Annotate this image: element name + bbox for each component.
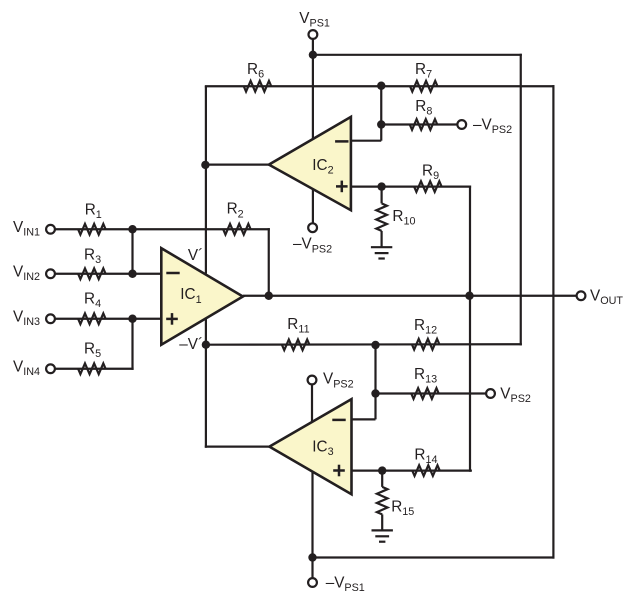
svg-text:–V´: –V´ <box>179 336 203 353</box>
wire IC3 noninverting input / R14 row <box>352 470 472 472</box>
svg-text:R12: R12 <box>414 317 437 337</box>
op-amp IC3 <box>269 399 351 494</box>
IC2 noninverting marker <box>336 181 348 193</box>
op-amp IC1 <box>161 248 243 345</box>
junction R1 node <box>128 225 136 233</box>
wire IC3 inverting input <box>352 418 376 420</box>
wire R4 node down to R5 <box>131 319 133 370</box>
resistor R15 <box>377 487 388 515</box>
resistor R12 <box>412 339 440 350</box>
svg-text:R13: R13 <box>414 366 437 386</box>
wire VIN1/R1/R2 row <box>55 228 270 230</box>
wire R15 top lead <box>381 471 383 487</box>
wire VPS1 rail right <box>313 54 522 56</box>
wire IC1 output to VOUT <box>243 295 577 297</box>
junction VPS1 node <box>309 51 317 59</box>
wire R9 down through VOUT node to R14 <box>469 186 471 472</box>
terminal VIN2 <box>46 269 55 278</box>
svg-text:R4: R4 <box>84 291 101 311</box>
junction R11/R12 node <box>371 341 379 349</box>
junction R3 node <box>128 270 136 278</box>
resistor R9 <box>414 181 442 192</box>
junction R9/R10 node <box>377 182 385 190</box>
resistor R7 <box>410 81 438 92</box>
svg-text:VIN3: VIN3 <box>13 309 40 329</box>
resistor R11 <box>282 340 310 351</box>
wire far-right vertical R7 to -VPS1 rail <box>552 85 554 558</box>
svg-text:–VPS2: –VPS2 <box>293 236 332 256</box>
resistor R5 <box>78 363 106 374</box>
wire IC1 -V' pin down to IC3 output level <box>205 318 207 448</box>
svg-text:R3: R3 <box>84 247 101 267</box>
svg-text:R14: R14 <box>414 446 437 466</box>
junction IC2 output / V' node <box>201 161 209 169</box>
wire R12/R13 node vertical to IC3 inverting input <box>374 345 376 419</box>
junction IC1 output / R2 <box>265 292 273 300</box>
resistor R1 <box>78 224 106 235</box>
wire R13 row to VPS2 terminal <box>376 392 487 394</box>
junction -V' node <box>202 341 210 349</box>
wire R2 down to IC1 output <box>268 228 270 296</box>
terminal -VPS2 (right of R8) <box>457 120 466 129</box>
wire R6 row <box>205 85 381 87</box>
wire VIN3/R4 row to IC1 noninverting input <box>55 318 161 320</box>
wire IC3 V- pin down to -VPS1 rail and terminal stub <box>311 472 313 578</box>
wire R1 node down to R3 node <box>131 229 133 274</box>
IC3 inverting marker <box>332 419 345 422</box>
wire IC2 V- pin to -VPS2 terminal <box>312 190 314 224</box>
resistor R4 <box>78 313 106 324</box>
terminal -VPS1 <box>308 578 317 587</box>
IC2 inverting marker <box>335 140 348 143</box>
op-amp IC2 <box>269 117 351 210</box>
wire V' vertical R6-left down to IC1 V' pin <box>205 86 207 273</box>
wire right-outer vertical VPS1 to R12 <box>520 54 522 346</box>
IC1 noninverting marker <box>166 313 178 325</box>
resistor R14 <box>412 465 440 476</box>
resistor R6 <box>244 81 272 92</box>
junction R4/R5 node <box>128 315 136 323</box>
IC3 noninverting marker <box>333 465 345 477</box>
terminal -VPS2 (below IC2) <box>308 223 317 232</box>
svg-text:V´: V´ <box>188 247 203 264</box>
svg-text:VOUT: VOUT <box>590 287 623 307</box>
wire IC2 noninverting input / R9 row <box>351 186 471 188</box>
ground under R15 <box>372 530 393 541</box>
terminal VIN1 <box>46 225 55 234</box>
svg-text:VPS2: VPS2 <box>500 386 531 406</box>
svg-text:VIN1: VIN1 <box>13 219 40 239</box>
resistor R2 <box>223 224 251 235</box>
svg-text:R11: R11 <box>287 316 309 336</box>
wire VIN4/R5 row <box>55 368 134 370</box>
svg-text:R10: R10 <box>392 208 415 228</box>
svg-text:R7: R7 <box>415 61 432 81</box>
svg-text:–VPS2: –VPS2 <box>473 117 512 137</box>
resistor R13 <box>411 388 439 399</box>
wire to IC3 output apex <box>205 446 270 448</box>
svg-text:VPS1: VPS1 <box>299 10 330 30</box>
wire R10 bottom lead to ground <box>381 231 383 247</box>
IC1 inverting marker <box>166 272 179 275</box>
junction VOUT node <box>465 292 473 300</box>
wire IC2 inverting input <box>351 140 381 142</box>
wire VIN2/R3 row to IC1 inverting input <box>55 273 161 275</box>
junction R6/R7 node <box>377 82 385 90</box>
svg-text:R2: R2 <box>227 201 244 221</box>
terminal VIN3 <box>46 314 55 323</box>
svg-text:R8: R8 <box>415 98 432 118</box>
svg-text:–VPS1: –VPS1 <box>326 574 365 594</box>
svg-text:VIN4: VIN4 <box>13 359 40 379</box>
terminal VPS2 (right of R13) <box>486 389 495 398</box>
terminal VIN4 <box>46 364 55 373</box>
junction R13 node <box>371 389 379 397</box>
svg-text:R9: R9 <box>422 162 439 182</box>
wire -VPS1 bottom rail <box>313 556 555 558</box>
svg-text:R15: R15 <box>391 498 414 518</box>
wire VPS1 stub down through R6 crossing to IC2 V+ pin <box>312 39 314 139</box>
svg-text:R5: R5 <box>84 341 101 361</box>
resistor R8 <box>410 119 438 130</box>
svg-text:VIN2: VIN2 <box>13 264 40 284</box>
wire R15 bottom lead to ground <box>381 514 383 530</box>
resistor R3 <box>78 268 106 279</box>
wire -V'/R11/R12 row <box>206 343 522 346</box>
resistor R10 <box>376 203 387 231</box>
wire IC2 inverting node vertical <box>380 86 382 141</box>
junction R14/R15 node <box>378 466 386 474</box>
junction -VPS1 rail node <box>308 553 316 561</box>
terminal VPS2 (above IC3) <box>308 376 317 385</box>
wire R7 row <box>381 85 554 87</box>
ground under R10 <box>371 247 392 258</box>
wire VPS2 terminal to IC3 V+ pin <box>311 384 313 421</box>
svg-text:VPS2: VPS2 <box>323 371 354 391</box>
terminal VPS1 <box>309 30 318 39</box>
terminal VOUT <box>577 291 586 300</box>
svg-text:R6: R6 <box>247 61 264 81</box>
svg-text:R1: R1 <box>85 202 102 222</box>
wire IC2 output to V' node <box>205 164 269 166</box>
wire R8 row <box>381 123 457 125</box>
junction R8 node <box>377 120 385 128</box>
wire R10 top lead <box>381 187 383 204</box>
